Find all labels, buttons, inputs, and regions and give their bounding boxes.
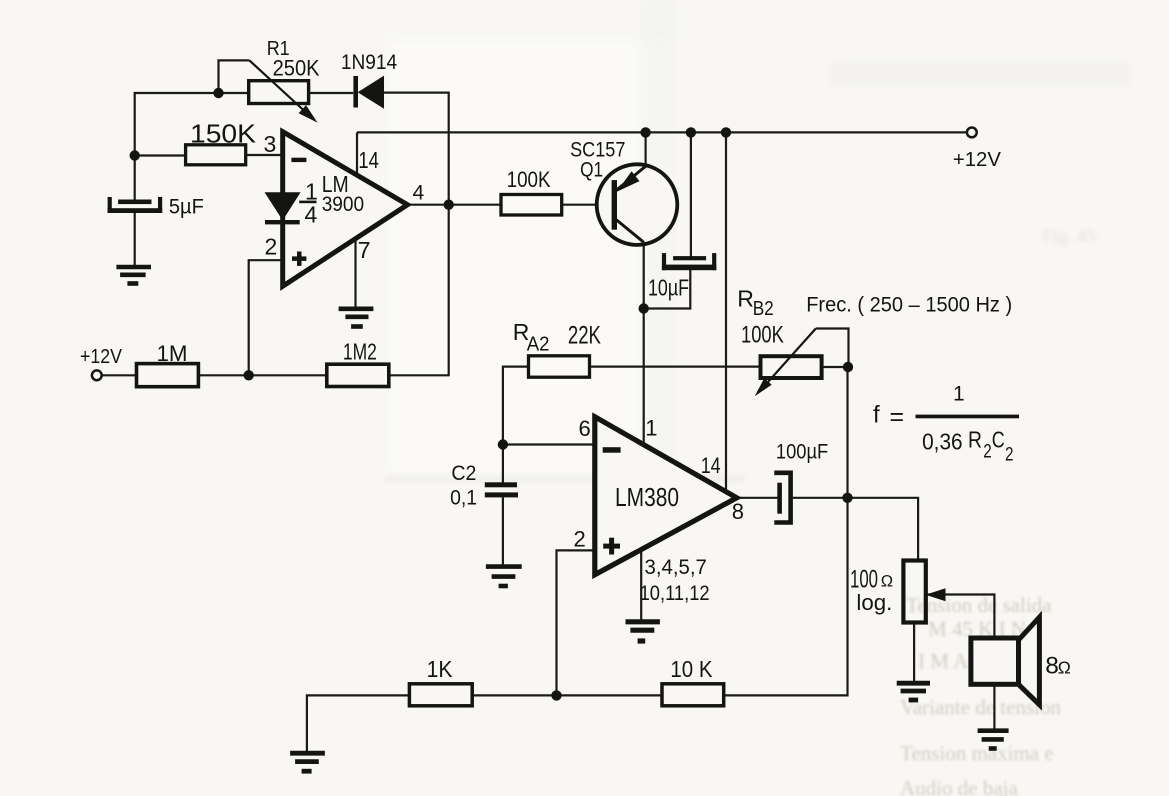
wire: +12V top rail xyxy=(357,131,967,133)
svg-text:4: 4 xyxy=(413,182,425,205)
svg-text:10 K: 10 K xyxy=(670,656,713,682)
wire: 100uF to output node and corner to volume pot xyxy=(793,498,918,561)
node: LM3900 output xyxy=(444,200,454,210)
svg-text:+12V: +12V xyxy=(80,346,123,368)
svg-text:Ω: Ω xyxy=(1058,657,1071,677)
transistor Q1 SC157 xyxy=(597,164,678,245)
svg-text:Tension de salida: Tension de salida xyxy=(906,593,1052,617)
wire: LM380 output to 100uF xyxy=(734,497,778,499)
node: LM380 output / feedback xyxy=(842,493,852,503)
resistor 150K xyxy=(186,145,246,165)
ground (speaker) xyxy=(978,731,1009,749)
wire: pin 14 of LM3900 to +12V rail xyxy=(356,132,358,175)
wire: 150K to pin 3 xyxy=(246,154,283,156)
label LM 3900 xyxy=(322,171,365,216)
wire: collector node down to LM380 pin 1 xyxy=(643,309,645,445)
svg-text:log.: log. xyxy=(856,590,892,615)
ground (pin 7 LM3900) xyxy=(339,309,374,327)
svg-text:C2: C2 xyxy=(451,462,476,485)
wire: bottom rail 1K to ground corner xyxy=(307,695,410,751)
wire: Q1 emitter to +12V rail xyxy=(644,132,646,166)
wire: junction to 150K xyxy=(135,154,186,156)
wire: R1 wiper link xyxy=(219,60,250,93)
svg-text:4: 4 xyxy=(305,202,318,228)
terminal +12V rail (right) xyxy=(967,127,977,137)
svg-text:250K: 250K xyxy=(273,56,320,81)
wire: C2 top lead xyxy=(502,445,504,485)
svg-text:8: 8 xyxy=(732,499,744,524)
wire: pin 2 stub down to 1M node xyxy=(249,260,283,375)
svg-text:14: 14 xyxy=(358,147,379,173)
wire: RB2 node down to output node and 10K xyxy=(724,367,848,695)
potentiometer 100 ohm log xyxy=(903,561,945,623)
ground (1K) xyxy=(290,753,325,771)
svg-text:1K: 1K xyxy=(427,656,453,682)
capacitor 100uF xyxy=(774,473,790,523)
svg-text:3: 3 xyxy=(264,131,277,157)
speaker 8 ohm xyxy=(971,617,1040,705)
formula f = 1 / 0,36 R2C2 xyxy=(873,383,1019,466)
minus sign U1 xyxy=(291,158,306,162)
plus sign U2 xyxy=(603,538,620,555)
svg-text:1M2: 1M2 xyxy=(343,339,377,365)
resistor 100K (base) xyxy=(501,195,562,216)
wire: LM380 pin 2 leg xyxy=(557,550,595,695)
wire: 1K to 10K xyxy=(472,694,662,696)
wire: LM380 pin 14 to +12V rail xyxy=(725,132,727,490)
svg-text:Audio de baja: Audio de baja xyxy=(900,776,1018,796)
wire: C2 bottom lead to ground xyxy=(502,497,504,565)
wire: +12V input terminal to 1M xyxy=(102,374,137,376)
wire: op-amp output pin 4 to 100K xyxy=(405,204,501,206)
ground (C2) xyxy=(486,567,522,586)
svg-text:Fig. 45: Fig. 45 xyxy=(1042,226,1096,247)
wire: pin 7 to ground xyxy=(354,239,356,307)
svg-text:2: 2 xyxy=(574,527,586,552)
resistor 1M2 xyxy=(327,364,389,386)
wire: pin 6 node to LM380 xyxy=(503,443,595,445)
op-amp U1 1/4 LM3900 xyxy=(283,132,408,287)
svg-text:100µF: 100µF xyxy=(776,440,828,464)
svg-text:10,11,12: 10,11,12 xyxy=(640,582,710,605)
node: pin 6 / RA2 / C2 xyxy=(498,439,508,449)
wire: 10uF bottom lead to collector node xyxy=(644,269,691,309)
wire: 100K to Q1 base xyxy=(562,204,612,206)
label 1/4 xyxy=(299,179,318,228)
svg-text:5µF: 5µF xyxy=(169,196,204,219)
label C2 xyxy=(450,462,477,510)
wire: RA2 to RB2 xyxy=(590,366,761,368)
ground (100 ohm pot) xyxy=(897,683,930,700)
svg-text:+12V: +12V xyxy=(953,149,1002,171)
label RB2 xyxy=(737,286,784,349)
svg-text:1N914: 1N914 xyxy=(341,51,398,74)
resistor 1M xyxy=(137,364,199,387)
svg-text:C: C xyxy=(992,427,1005,453)
wire: left rail from R1 row down to 5uF cap xyxy=(135,93,249,200)
svg-text:6: 6 xyxy=(579,416,591,441)
node: 1K / 10K / pin 2 xyxy=(551,690,561,700)
wire: 1M to 1M2 xyxy=(198,374,326,376)
svg-text:22K: 22K xyxy=(568,321,601,349)
node: Q1 collector / 10uF / pin 1 xyxy=(639,303,649,313)
label RA2 xyxy=(513,319,601,356)
minus sign U2 xyxy=(603,447,621,453)
resistor RA2 22K xyxy=(529,356,590,377)
node: rail / LM380 pin 14 xyxy=(721,127,731,137)
diode D1 1N914 xyxy=(353,76,384,109)
wire: speaker to ground xyxy=(993,684,995,729)
capacitor 5uF xyxy=(108,197,163,213)
capacitor C2 xyxy=(485,482,518,497)
svg-text:150K: 150K xyxy=(190,119,257,149)
resistor R1 250K (rheostat) xyxy=(249,60,318,122)
svg-text:A2: A2 xyxy=(527,334,550,356)
svg-text:2: 2 xyxy=(265,234,278,260)
svg-text:2: 2 xyxy=(983,442,992,463)
svg-text:100K: 100K xyxy=(741,322,784,349)
svg-text:3,4,5,7: 3,4,5,7 xyxy=(645,556,707,579)
svg-text:1: 1 xyxy=(645,416,657,441)
op-amp U2 LM380 xyxy=(595,417,737,575)
diode (internal, LM3900 input) xyxy=(265,155,301,260)
ground (LM380) xyxy=(626,622,660,641)
svg-text:0,36: 0,36 xyxy=(922,429,963,455)
ground (5uF) xyxy=(116,267,151,284)
svg-text:1M: 1M xyxy=(157,341,188,366)
wire: volume pot wiper to speaker xyxy=(928,595,995,639)
capacitor 10uF xyxy=(662,253,716,270)
wire: LM380 ground pin xyxy=(640,549,642,619)
wire: RA2 left leg from pin 6 node xyxy=(503,367,529,445)
node: 150K / 5uF xyxy=(130,150,140,160)
svg-text:0,1: 0,1 xyxy=(450,487,477,510)
svg-text:Frec. ( 250 – 1500 Hz ): Frec. ( 250 – 1500 Hz ) xyxy=(806,294,1012,317)
plus sign U1 xyxy=(292,252,306,266)
svg-text:7: 7 xyxy=(358,237,371,263)
svg-text:100K: 100K xyxy=(507,167,551,192)
node: 1M / 1M2 / pin 2 xyxy=(244,370,254,380)
svg-text:R: R xyxy=(737,286,754,312)
svg-text:2: 2 xyxy=(1005,445,1014,466)
terminal +12V input (left) xyxy=(92,370,102,380)
potentiometer RB2 100K xyxy=(755,329,822,397)
node: rail / 10uF xyxy=(686,127,696,137)
svg-text:LM380: LM380 xyxy=(615,482,679,512)
node: RB2 right xyxy=(843,362,853,372)
svg-text:=: = xyxy=(890,403,905,431)
wire: 10uF top lead from rail xyxy=(690,132,692,257)
svg-text:B2: B2 xyxy=(753,298,774,320)
resistor 10K xyxy=(662,684,724,706)
wire: R1 to diode D1 xyxy=(309,92,354,94)
svg-text:1: 1 xyxy=(953,383,965,406)
svg-text:10µF: 10µF xyxy=(648,275,689,301)
wire: Q1 collector down to node xyxy=(643,242,645,309)
wire: diode to right loop down to 1M2 xyxy=(384,93,449,376)
node: rail / Q1 emitter xyxy=(640,127,650,137)
wire: RB2 wiper link xyxy=(816,329,849,368)
svg-text:Q1: Q1 xyxy=(580,158,603,182)
svg-text:Ω: Ω xyxy=(881,573,893,591)
wire: volume pot bottom to ground xyxy=(913,623,915,682)
wire: RB2 right side to node xyxy=(822,366,849,368)
svg-text:14: 14 xyxy=(701,453,721,478)
svg-text:f: f xyxy=(873,402,880,429)
svg-text:R: R xyxy=(968,427,982,453)
resistor 1K xyxy=(409,684,472,706)
node: R1 wiper tap xyxy=(213,88,223,98)
svg-text:Tension maxima e: Tension maxima e xyxy=(900,741,1054,765)
wire: 5uF to ground xyxy=(134,213,136,265)
svg-text:3900: 3900 xyxy=(322,192,365,216)
